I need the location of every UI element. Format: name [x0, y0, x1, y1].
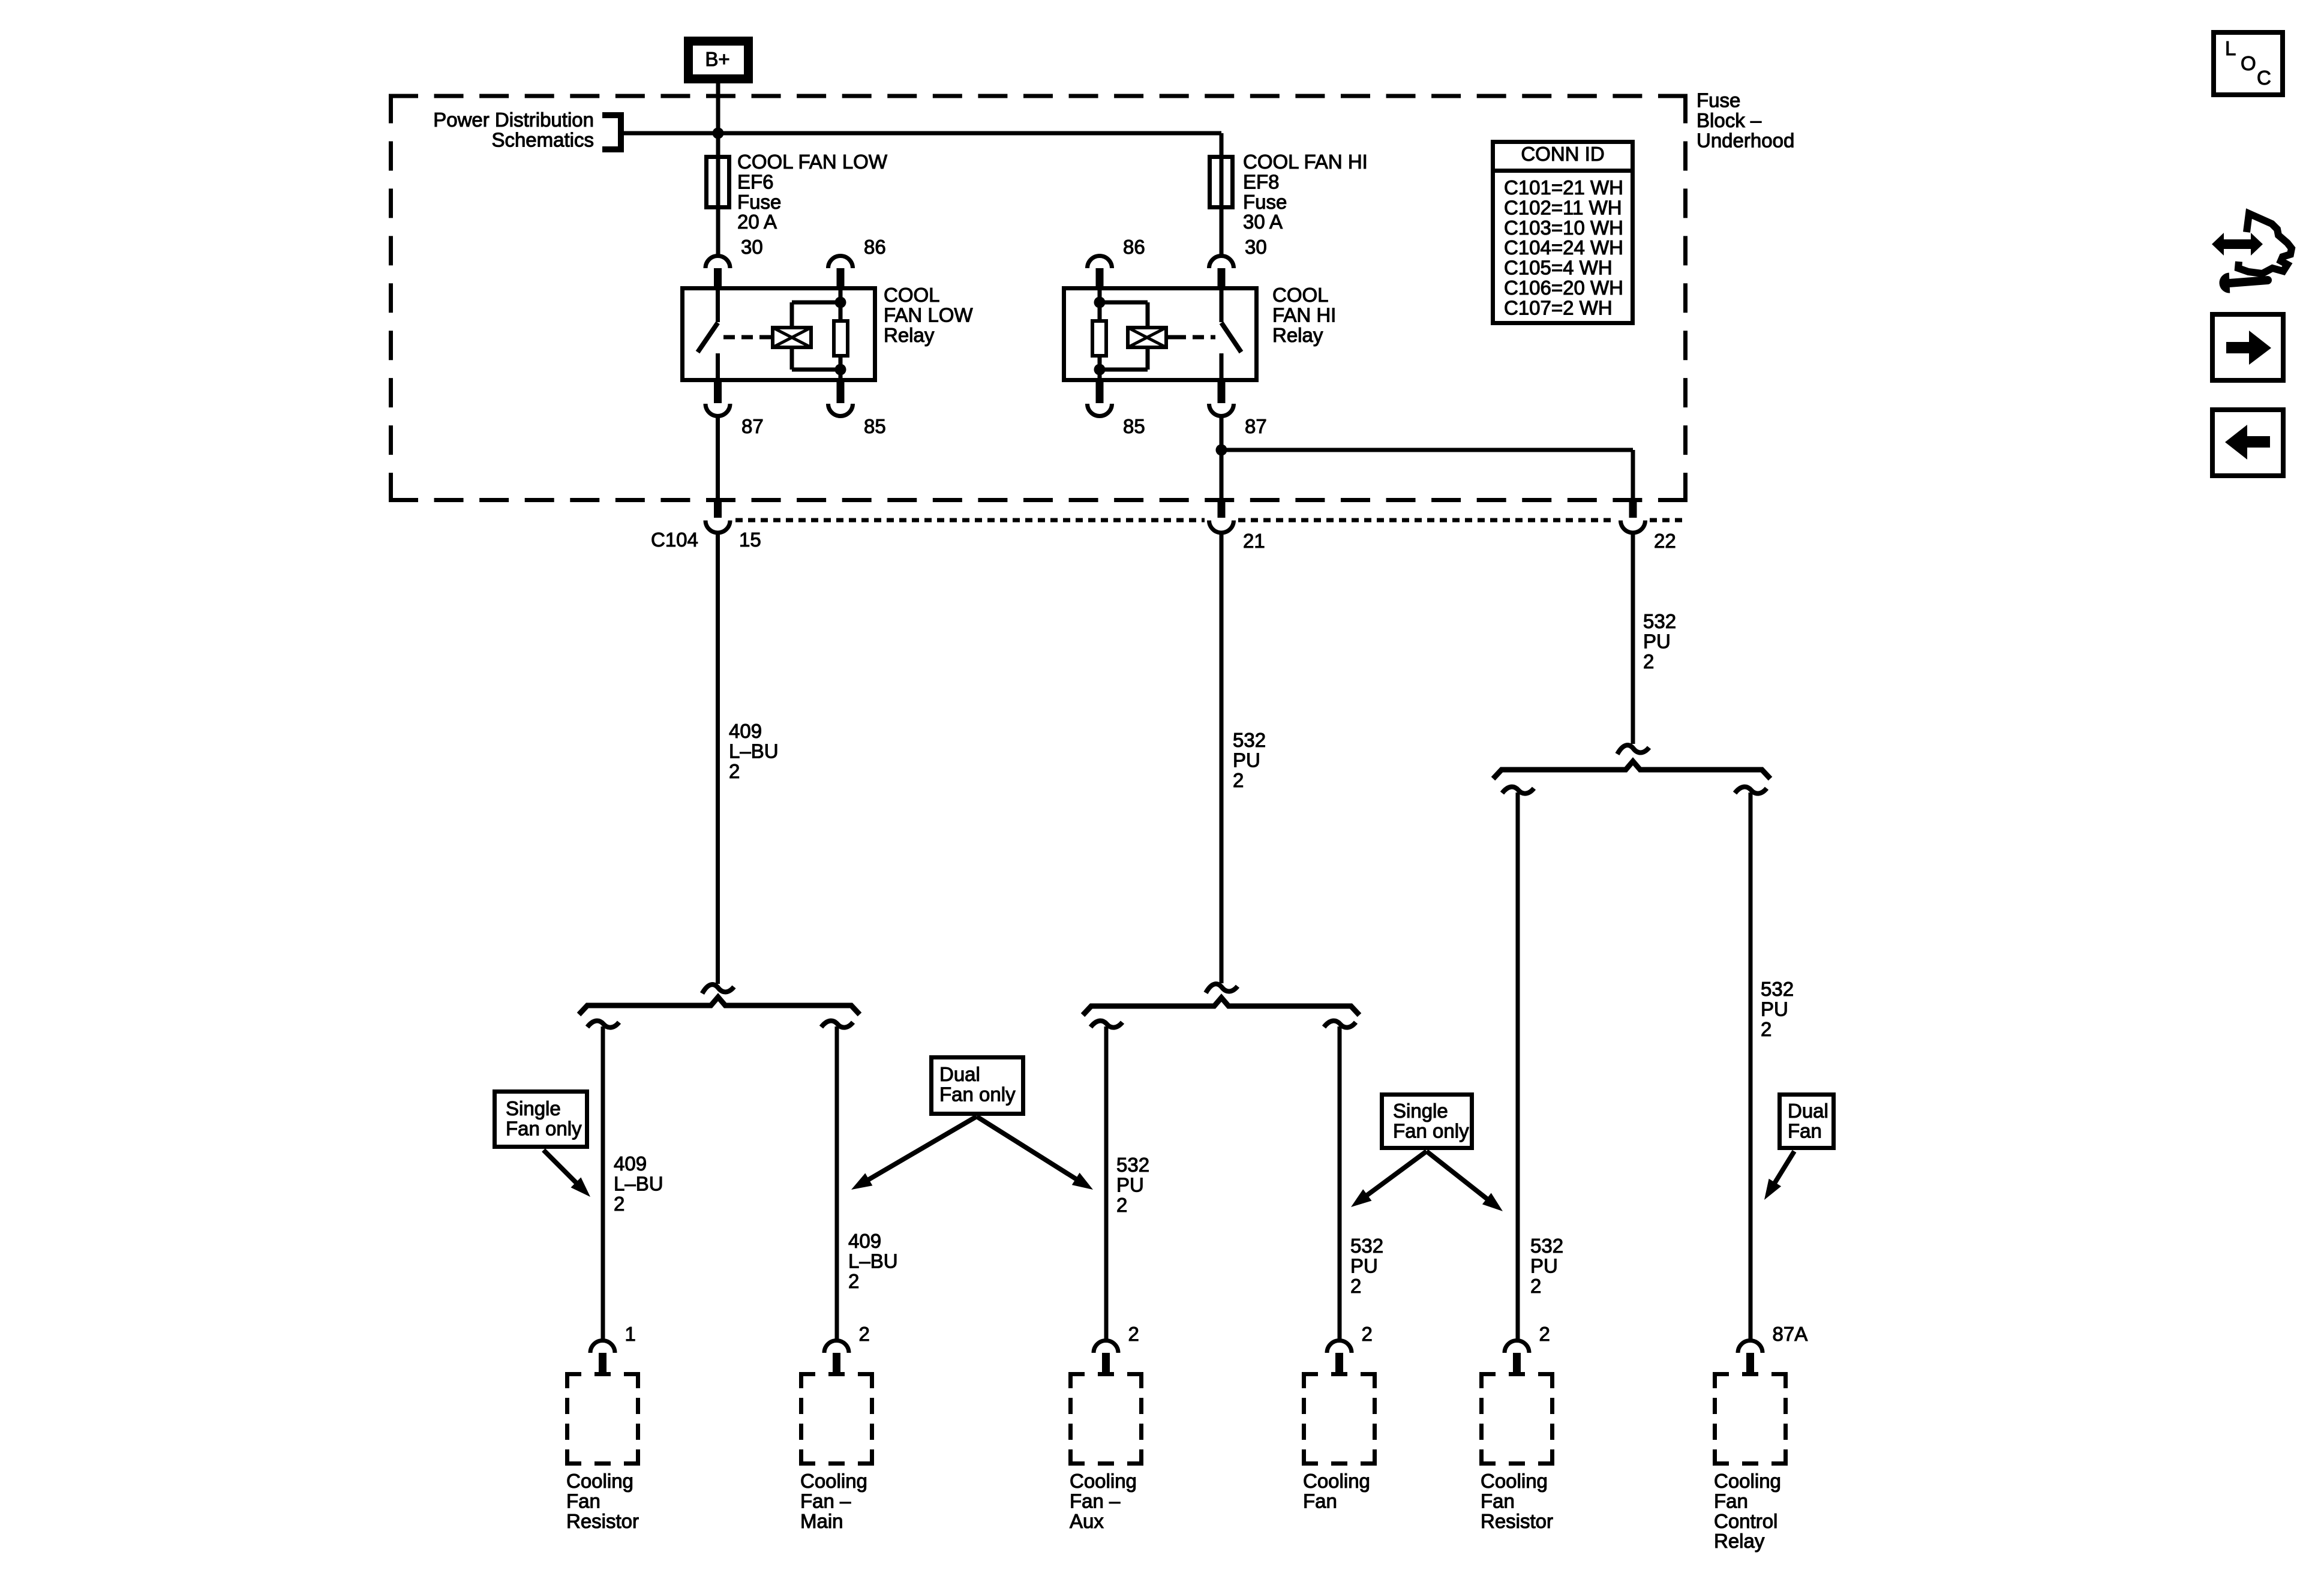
- svg-text:Cooling: Cooling: [800, 1470, 867, 1492]
- wire B+ to fuse EF6: [716, 83, 720, 157]
- pin 86 connector relay K2: [1087, 256, 1112, 288]
- component dashed box cooling fan: [1302, 1372, 1377, 1466]
- relay K1 actuator dashed link: [723, 335, 764, 340]
- label wire 409 L-BU 2 main fan branch: [848, 1230, 898, 1292]
- CONN ID table header rule: [1491, 169, 1635, 173]
- svg-text:86: 86: [1123, 236, 1145, 258]
- component dashed box cooling fan - main: [799, 1372, 874, 1466]
- relay K2 junction dot top: [1094, 297, 1106, 308]
- svg-text:30 A: 30 A: [1243, 211, 1283, 233]
- label pin 85 relay K1: [864, 415, 886, 437]
- label C104: [651, 529, 698, 551]
- arrow Dual Fan only to aux fan wire: [977, 1116, 1093, 1190]
- svg-text:CONN ID: CONN ID: [1521, 143, 1604, 165]
- svg-text:Dual: Dual: [939, 1063, 980, 1085]
- label wire 532 PU 2 fan branch: [1350, 1235, 1383, 1297]
- svg-text:FAN HI: FAN HI: [1272, 304, 1336, 326]
- svg-text:L–BU: L–BU: [614, 1172, 663, 1194]
- connector C104 pin 15: [705, 500, 730, 533]
- relay K2 resistor: [1092, 321, 1106, 356]
- icon next arrow box: [2212, 314, 2283, 380]
- label pin 87 relay K1: [741, 415, 764, 437]
- connector pin 2 of cooling fan - aux: [1094, 1340, 1118, 1374]
- svg-text:2: 2: [1116, 1194, 1127, 1216]
- svg-text:30: 30: [1245, 236, 1267, 258]
- component dashed box cooling fan resistor (single fan): [565, 1372, 640, 1466]
- svg-text:87: 87: [741, 415, 764, 437]
- bracket power distribution schematics: [602, 115, 621, 149]
- svg-text:87A: 87A: [1773, 1323, 1808, 1345]
- svg-text:86: 86: [864, 236, 886, 258]
- relay K1 coil: [773, 328, 811, 347]
- label pin 30 relay K2: [1245, 236, 1267, 258]
- relay K2 switch blade: [1221, 323, 1241, 352]
- relay K1 coil bottom lead: [792, 349, 840, 370]
- label Dual Fan: [1788, 1100, 1828, 1142]
- svg-text:Cooling: Cooling: [1303, 1470, 1370, 1492]
- svg-text:PU: PU: [1761, 998, 1788, 1020]
- wire branch to cooling fan aux: [1091, 1021, 1122, 1339]
- CONN ID table title: [1521, 143, 1604, 165]
- relay K2 actuator dashed link: [1175, 335, 1215, 340]
- label wire 532 PU 2 control relay branch: [1761, 978, 1794, 1040]
- svg-text:2: 2: [1643, 650, 1654, 673]
- svg-text:Power Distribution: Power Distribution: [433, 109, 594, 131]
- relay K2 resistor top lead: [1098, 289, 1102, 319]
- label Dual Fan only: [939, 1063, 1016, 1105]
- svg-text:C102=11 WH: C102=11 WH: [1504, 196, 1622, 218]
- svg-text:C105=4 WH: C105=4 WH: [1504, 257, 1613, 279]
- svg-text:C104: C104: [651, 529, 698, 551]
- junction dot pin 87 relay K2: [1216, 445, 1227, 456]
- relay K2 coil: [1128, 328, 1166, 347]
- relay K2 coil top lead: [1100, 302, 1148, 326]
- connector C104 pin 21: [1209, 500, 1233, 533]
- pin 30 connector relay K2: [1209, 256, 1233, 288]
- svg-text:Fuse: Fuse: [737, 191, 781, 213]
- svg-text:Fuse: Fuse: [1243, 191, 1287, 213]
- CONN ID table box: [1493, 142, 1633, 323]
- svg-text:C106=20 WH: C106=20 WH: [1504, 277, 1623, 299]
- svg-text:COOL FAN HI: COOL FAN HI: [1243, 151, 1368, 173]
- svg-text:2: 2: [859, 1323, 870, 1345]
- icon previous arrow box: [2212, 410, 2283, 476]
- fuse EF8: [1210, 157, 1233, 208]
- svg-text:Control: Control: [1714, 1510, 1777, 1532]
- relay K1 COOL FAN LOW box: [683, 289, 875, 380]
- svg-text:B+: B+: [705, 48, 729, 70]
- icon adjust outline: [2238, 214, 2292, 274]
- relay K1 resistor: [834, 321, 848, 356]
- wire branch to cooling fan resistor dual: [1502, 787, 1534, 1339]
- svg-text:409: 409: [614, 1152, 647, 1175]
- relay K2 switch fixed contact: [1220, 289, 1224, 322]
- svg-text:C: C: [2257, 67, 2271, 89]
- label Power Distribution Schematics: [433, 109, 594, 151]
- fuse block underhood dashed box: [389, 94, 1688, 503]
- wire 532 PU circuit from C104-22: [1617, 534, 1649, 754]
- svg-text:Relay: Relay: [1714, 1530, 1765, 1552]
- label pin 22: [1654, 530, 1676, 552]
- svg-text:Fan: Fan: [1788, 1119, 1822, 1142]
- label wire 532 PU 2 aux branch: [1116, 1154, 1149, 1216]
- label wire 409 L-BU 2 main: [729, 720, 779, 782]
- relay K2 junction dot bottom: [1094, 364, 1106, 376]
- connector pin 1 of cooling fan resistor (single fan): [590, 1340, 615, 1374]
- svg-text:22: 22: [1654, 530, 1676, 552]
- label pin 15: [739, 529, 761, 551]
- svg-text:L: L: [2225, 37, 2236, 59]
- svg-text:2: 2: [1128, 1323, 1139, 1345]
- svg-text:PU: PU: [1233, 749, 1260, 771]
- label relay K1: [884, 284, 973, 346]
- label Single Fan only left: [506, 1097, 582, 1139]
- label pin 1 of cooling fan resistor (single fan): [625, 1323, 636, 1345]
- power feed B+ terminal: [689, 41, 749, 79]
- connector pin 2 of cooling fan - main: [824, 1340, 849, 1374]
- svg-text:1: 1: [625, 1323, 636, 1345]
- svg-text:2: 2: [1761, 1018, 1771, 1040]
- svg-text:532: 532: [1530, 1235, 1563, 1257]
- svg-text:20 A: 20 A: [737, 211, 777, 233]
- wire bus drop to fuse EF8: [1220, 133, 1224, 157]
- svg-text:Fan: Fan: [1481, 1490, 1515, 1512]
- relay K1 junction dot top: [835, 297, 846, 308]
- svg-text:EF8: EF8: [1243, 170, 1280, 193]
- relay K1 resistor top lead: [839, 289, 843, 319]
- svg-text:532: 532: [1643, 610, 1676, 632]
- wire 409 L-BU circuit from C104-15: [702, 534, 734, 993]
- svg-text:2: 2: [1362, 1323, 1373, 1345]
- component dashed box cooling fan resistor (dual fan): [1479, 1372, 1554, 1466]
- svg-text:Single: Single: [1393, 1100, 1448, 1122]
- wire branch to cooling fan main: [821, 1021, 853, 1339]
- svg-text:PU: PU: [1643, 630, 1671, 652]
- wire relay K2 pin 87 down: [1220, 418, 1224, 501]
- svg-text:C104=24 WH: C104=24 WH: [1504, 236, 1623, 259]
- svg-text:Block –: Block –: [1697, 109, 1762, 131]
- svg-text:Dual: Dual: [1788, 1100, 1828, 1122]
- svg-text:Cooling: Cooling: [1070, 1470, 1137, 1492]
- wire fuse EF6 internal: [716, 157, 720, 255]
- icon LOC box: [2214, 32, 2283, 95]
- label pin 87A of cooling fan control relay: [1773, 1323, 1808, 1345]
- component dashed box cooling fan control relay: [1713, 1372, 1788, 1466]
- svg-text:C103=10 WH: C103=10 WH: [1504, 217, 1623, 239]
- svg-text:Fan: Fan: [566, 1490, 600, 1512]
- connector pin 2 of cooling fan resistor (dual fan): [1505, 1340, 1529, 1374]
- svg-text:Cooling: Cooling: [1714, 1470, 1781, 1492]
- svg-text:Fan –: Fan –: [1070, 1490, 1121, 1512]
- icon adjust double arrow: [2212, 233, 2263, 256]
- label Single Fan only right: [1393, 1100, 1469, 1142]
- label Fuse Block - Underhood: [1697, 89, 1794, 152]
- svg-text:Fan –: Fan –: [800, 1490, 851, 1512]
- label pin 86 relay K2: [1123, 236, 1145, 258]
- svg-text:C101=21 WH: C101=21 WH: [1504, 176, 1623, 199]
- arrow Single Fan only left: [544, 1150, 590, 1197]
- label fuse EF6: [737, 151, 888, 233]
- svg-text:PU: PU: [1530, 1254, 1558, 1277]
- label pin 2 of cooling fan - main: [859, 1323, 870, 1345]
- label pin 86 relay K1: [864, 236, 886, 258]
- label pin 30 relay K1: [741, 236, 763, 258]
- svg-text:O: O: [2241, 52, 2256, 74]
- label wire 532 PU 2 right: [1643, 610, 1676, 673]
- relay K1 coil lead left: [764, 335, 772, 340]
- arrow Dual Fan only to main fan wire: [851, 1116, 977, 1190]
- relay K1 switch fixed contact: [716, 289, 720, 322]
- svg-text:Aux: Aux: [1070, 1510, 1104, 1532]
- svg-text:532: 532: [1233, 729, 1266, 751]
- svg-text:Fan: Fan: [1714, 1490, 1748, 1512]
- svg-text:FAN LOW: FAN LOW: [884, 304, 973, 326]
- svg-text:Resistor: Resistor: [1481, 1510, 1553, 1532]
- label pin 21: [1243, 530, 1265, 552]
- svg-text:532: 532: [1761, 978, 1794, 1000]
- label cooling fan control relay: [1714, 1470, 1781, 1552]
- label relay K2: [1272, 284, 1336, 346]
- svg-text:L–BU: L–BU: [848, 1250, 898, 1272]
- relay K2 COOL FAN HI box: [1064, 289, 1257, 380]
- svg-text:Relay: Relay: [884, 324, 935, 346]
- arrow Single Fan only right to resistor wire: [1427, 1151, 1503, 1211]
- svg-text:2: 2: [1350, 1275, 1361, 1297]
- relay K2 coil bottom lead: [1100, 349, 1148, 370]
- arrow Dual Fan to control relay wire: [1764, 1151, 1794, 1200]
- wire relay K1 pin 87 to connector C104-15: [716, 418, 720, 501]
- wire power distribution bus: [624, 131, 1221, 136]
- wire branch to cooling fan single: [1324, 1021, 1356, 1339]
- svg-text:Fan only: Fan only: [939, 1083, 1016, 1105]
- pin 87 connector relay K1: [705, 380, 730, 416]
- svg-text:Fan only: Fan only: [1393, 1119, 1469, 1142]
- connector pin 2 of cooling fan: [1327, 1340, 1352, 1374]
- label cooling fan - aux: [1070, 1470, 1137, 1532]
- label pin 2 of cooling fan: [1362, 1323, 1373, 1345]
- svg-text:532: 532: [1350, 1235, 1383, 1257]
- label pin 2 of cooling fan - aux: [1128, 1323, 1139, 1345]
- relay K1 junction dot bottom: [835, 364, 846, 376]
- svg-text:2: 2: [848, 1270, 859, 1292]
- svg-text:2: 2: [1233, 769, 1244, 791]
- icon adjust wrench: [2223, 276, 2268, 290]
- relay K2 switch lower contact: [1220, 353, 1224, 380]
- svg-text:2: 2: [614, 1193, 624, 1215]
- svg-text:Fan only: Fan only: [506, 1117, 582, 1139]
- arrow Single Fan only right to fan wire: [1351, 1151, 1427, 1207]
- callout box Single Fan only left: [495, 1092, 587, 1147]
- dotted connector line C104: [735, 518, 1682, 523]
- svg-text:L–BU: L–BU: [729, 740, 779, 762]
- wire 532 PU circuit from C104-21: [1206, 534, 1238, 993]
- fuse EF6: [707, 157, 729, 208]
- svg-text:COOL: COOL: [1272, 284, 1329, 306]
- label wire 532 PU 2 main: [1233, 729, 1266, 791]
- pin 85 connector relay K2: [1087, 380, 1112, 416]
- relay K2 resistor bottom lead: [1098, 358, 1102, 380]
- label wire 532 PU 2 resistor branch: [1530, 1235, 1563, 1297]
- pin 87 connector relay K2: [1209, 380, 1233, 416]
- svg-text:Main: Main: [800, 1510, 843, 1532]
- relay K1 resistor bottom lead: [839, 358, 843, 380]
- pin 85 connector relay K1: [828, 380, 853, 416]
- label wire 409 L-BU 2 resistor branch: [614, 1152, 663, 1215]
- svg-text:2: 2: [729, 760, 740, 782]
- component dashed box cooling fan - aux: [1068, 1372, 1143, 1466]
- svg-text:Resistor: Resistor: [566, 1510, 639, 1532]
- label cooling fan resistor (single fan): [566, 1470, 639, 1532]
- splice brace middle: [1083, 998, 1359, 1015]
- svg-text:Underhood: Underhood: [1697, 129, 1794, 151]
- svg-text:532: 532: [1116, 1154, 1149, 1176]
- splice brace left: [579, 997, 860, 1014]
- svg-text:409: 409: [729, 720, 762, 742]
- relay K2 coil lead right: [1167, 335, 1175, 340]
- svg-text:Cooling: Cooling: [566, 1470, 633, 1492]
- callout box Dual Fan only: [932, 1058, 1023, 1114]
- svg-text:PU: PU: [1350, 1254, 1378, 1277]
- svg-text:COOL: COOL: [884, 284, 940, 306]
- svg-text:87: 87: [1245, 415, 1267, 437]
- callout box Single Fan only right: [1382, 1095, 1472, 1148]
- relay K1 switch lower contact: [716, 353, 720, 380]
- splice brace right: [1493, 761, 1770, 779]
- svg-text:30: 30: [741, 236, 763, 258]
- svg-text:85: 85: [864, 415, 886, 437]
- svg-text:Schematics: Schematics: [491, 129, 594, 151]
- svg-text:C107=2 WH: C107=2 WH: [1504, 296, 1613, 319]
- label cooling fan - main: [800, 1470, 867, 1532]
- pin 30 connector relay K1: [705, 256, 730, 288]
- svg-text:Fan: Fan: [1303, 1490, 1337, 1512]
- svg-text:Cooling: Cooling: [1481, 1470, 1548, 1492]
- callout box Dual Fan: [1780, 1095, 1834, 1148]
- connector pin 87A of cooling fan control relay: [1738, 1340, 1762, 1374]
- label pin 87 relay K2: [1245, 415, 1267, 437]
- label cooling fan resistor (dual fan): [1481, 1470, 1553, 1532]
- svg-text:Fuse: Fuse: [1697, 89, 1740, 112]
- wire branch to cooling fan control relay: [1735, 787, 1767, 1339]
- svg-text:409: 409: [848, 1230, 881, 1252]
- svg-text:PU: PU: [1116, 1173, 1144, 1196]
- svg-text:2: 2: [1530, 1275, 1541, 1297]
- svg-text:COOL FAN LOW: COOL FAN LOW: [737, 151, 888, 173]
- svg-text:Single: Single: [506, 1097, 561, 1119]
- label pin 85 relay K2: [1123, 415, 1145, 437]
- svg-text:85: 85: [1123, 415, 1145, 437]
- pin 86 connector relay K1: [828, 256, 853, 288]
- label pin 2 of cooling fan resistor (dual fan): [1539, 1323, 1550, 1345]
- relay K1 coil top lead: [792, 302, 840, 326]
- svg-text:Relay: Relay: [1272, 324, 1323, 346]
- svg-text:2: 2: [1539, 1323, 1550, 1345]
- label fuse EF8: [1243, 151, 1368, 233]
- wire pin 87 relay K2 to connector C104-22: [1221, 450, 1633, 501]
- svg-text:15: 15: [739, 529, 761, 551]
- CONN ID table rows: [1504, 176, 1623, 319]
- junction dot at B+ feed: [713, 128, 724, 139]
- svg-text:21: 21: [1243, 530, 1265, 552]
- wire fuse EF8 internal: [1220, 157, 1224, 255]
- relay K1 switch blade: [698, 323, 718, 352]
- connector C104 pin 22: [1621, 500, 1646, 533]
- wire branch to cooling fan resistor single: [587, 1021, 619, 1339]
- svg-text:EF6: EF6: [737, 170, 774, 193]
- label cooling fan: [1303, 1470, 1370, 1512]
